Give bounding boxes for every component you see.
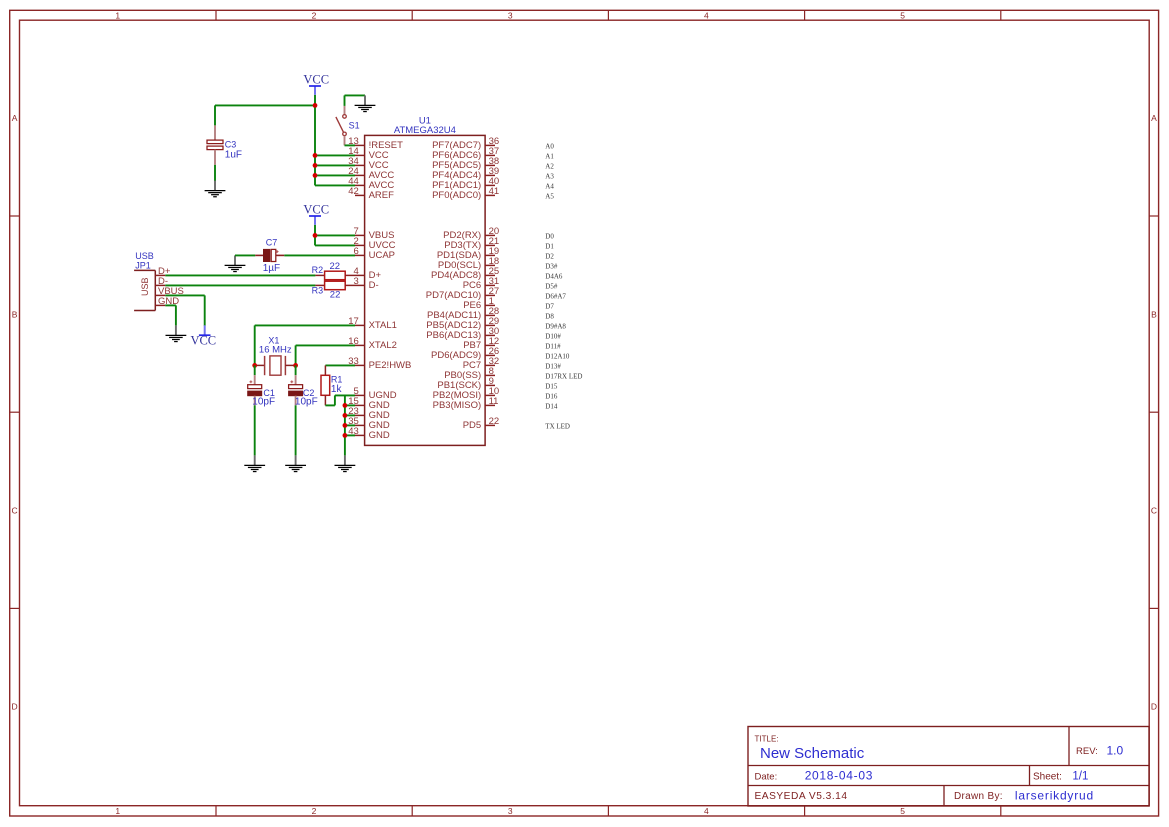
wire VCC to pin 14 bbox=[315, 154, 355, 156]
resistor R3 22 bbox=[315, 281, 355, 290]
svg-text:PF0(ADC0): PF0(ADC0) bbox=[432, 190, 481, 201]
wire VCC to pin 24 bbox=[315, 174, 355, 176]
U1 pin 13 !RESET bbox=[348, 136, 403, 151]
svg-text:10pF: 10pF bbox=[295, 396, 318, 407]
svg-text:D12A10: D12A10 bbox=[545, 353, 570, 361]
capacitor C7 1uF polarized bbox=[255, 249, 284, 261]
U1 pin 31 PC6 bbox=[463, 276, 499, 291]
power flag VCC (top) bbox=[303, 73, 329, 106]
svg-text:3: 3 bbox=[508, 10, 513, 20]
wire D- to R3 bbox=[165, 284, 315, 286]
svg-text:D7: D7 bbox=[545, 303, 554, 311]
svg-text:1k: 1k bbox=[331, 384, 343, 395]
svg-text:B: B bbox=[1151, 309, 1157, 319]
JP1 pin D+ bbox=[155, 266, 171, 277]
svg-text:UCAP: UCAP bbox=[369, 250, 395, 261]
U1 pin 36 PF7(ADC7) bbox=[432, 136, 499, 151]
svg-text:D15: D15 bbox=[545, 383, 558, 391]
U1 pin 23 GND bbox=[348, 406, 390, 421]
junction XTAL2/C2 bbox=[293, 363, 298, 368]
svg-text:Drawn By:: Drawn By: bbox=[954, 791, 1003, 802]
svg-text:A4: A4 bbox=[545, 183, 554, 191]
svg-text:D5#: D5# bbox=[545, 283, 558, 291]
svg-text:A: A bbox=[1151, 113, 1157, 123]
U1 pin 25 PD4(ADC8) bbox=[431, 266, 499, 281]
svg-text:2: 2 bbox=[312, 10, 317, 20]
svg-text:4: 4 bbox=[704, 806, 709, 816]
svg-text:D-: D- bbox=[369, 280, 379, 291]
wire VCC horizontal to C3 bbox=[215, 104, 315, 106]
svg-text:4: 4 bbox=[704, 10, 709, 20]
IC U1 ATMEGA32U4 body bbox=[365, 135, 486, 445]
resistor R1 1k bbox=[321, 365, 330, 405]
U1 pin 37 PF6(ADC6) bbox=[432, 146, 499, 161]
svg-text:5: 5 bbox=[900, 806, 905, 816]
JP1 pin GND bbox=[155, 296, 179, 307]
U1 pin 39 PF4(ADC4) bbox=[432, 166, 499, 181]
svg-text:VCC: VCC bbox=[190, 334, 216, 348]
U1 pin 5 UGND bbox=[354, 386, 397, 401]
U1 pin 12 PB7 bbox=[463, 336, 499, 351]
title block bbox=[748, 727, 1149, 807]
svg-text:larserikdyrud: larserikdyrud bbox=[1015, 788, 1094, 802]
wire VCC to pin 2 UVCC bbox=[315, 235, 355, 245]
U1 pin 32 PC7 bbox=[463, 356, 499, 371]
wire C1 to ground bbox=[254, 405, 256, 455]
connector JP1 USB body bbox=[134, 270, 155, 310]
svg-text:D1: D1 bbox=[545, 243, 554, 251]
svg-text:D10#: D10# bbox=[545, 333, 561, 341]
wire USB GND bbox=[165, 305, 176, 325]
crystal X1 16 MHz bbox=[255, 356, 296, 375]
wire VCC to pin 44 bbox=[315, 184, 355, 186]
resistor R2 22 bbox=[315, 271, 355, 280]
U1 pin 41 PF0(ADC0) bbox=[432, 186, 499, 201]
svg-text:D13#: D13# bbox=[545, 363, 561, 371]
wire C7 left bbox=[235, 254, 255, 256]
wire XTAL2 bbox=[296, 345, 355, 365]
wire to pin 35 GND bbox=[345, 424, 355, 426]
power flag VCC (VBUS) bbox=[303, 203, 329, 236]
wire C2 to ground bbox=[295, 405, 297, 455]
svg-text:R2: R2 bbox=[312, 265, 324, 275]
svg-text:10pF: 10pF bbox=[252, 396, 275, 407]
U1 pin 27 PD7(ADC10) bbox=[426, 286, 499, 301]
svg-text:VCC: VCC bbox=[303, 203, 329, 217]
U1 pin 2 UVCC bbox=[354, 236, 396, 251]
svg-text:R1: R1 bbox=[331, 374, 343, 384]
U1 pin 16 XTAL2 bbox=[348, 336, 397, 351]
svg-text:New Schematic: New Schematic bbox=[760, 745, 865, 762]
wire XTAL1 bbox=[255, 325, 355, 365]
wire VCC to pin 34 bbox=[315, 164, 355, 166]
U1 pin 6 UCAP bbox=[354, 246, 396, 261]
svg-text:41: 41 bbox=[489, 186, 500, 197]
U1 pin 7 VBUS bbox=[354, 226, 395, 241]
junction pin 34 bbox=[313, 163, 318, 168]
wire to pin 23 GND bbox=[345, 414, 355, 416]
U1 pin 20 PD2(RX) bbox=[443, 226, 499, 241]
svg-text:USB: USB bbox=[140, 277, 150, 296]
ground (C1) bbox=[244, 455, 265, 471]
svg-text:B: B bbox=[12, 309, 18, 319]
U1 pin 21 PD3(TX) bbox=[444, 236, 499, 251]
switch S1 bbox=[336, 106, 346, 145]
wire R1 to pin 33 bbox=[325, 364, 355, 366]
wire ground bus vertical bbox=[344, 395, 346, 455]
ground (C7) bbox=[225, 255, 246, 271]
wire to pin 43 GND bbox=[345, 434, 355, 436]
wire R1 to pin 5 UGND bbox=[325, 395, 355, 405]
svg-text:A: A bbox=[12, 113, 18, 123]
svg-text:D3#: D3# bbox=[545, 263, 558, 271]
U1 pin 22 PD5 bbox=[463, 416, 499, 431]
svg-text:D14: D14 bbox=[545, 403, 558, 411]
U1 pin 9 PB1(SCK) bbox=[437, 376, 495, 391]
wire C3 top bbox=[214, 105, 216, 125]
svg-text:D11#: D11# bbox=[545, 343, 561, 351]
svg-text:2: 2 bbox=[312, 806, 317, 816]
svg-text:16 MHz: 16 MHz bbox=[259, 345, 292, 356]
U1 pin 4 D+ bbox=[354, 266, 382, 281]
U1 pin 3 D- bbox=[354, 276, 379, 291]
capacitor C1 10pF polarized bbox=[248, 375, 262, 405]
power flag VCC (USB VBUS) bbox=[190, 325, 216, 347]
U1 pin 38 PF5(ADC5) bbox=[432, 156, 499, 171]
svg-text:PE2!HWB: PE2!HWB bbox=[369, 360, 412, 371]
wire VCC to pin 7 VBUS bbox=[315, 234, 355, 236]
svg-text:C: C bbox=[12, 506, 18, 516]
svg-text:D2: D2 bbox=[545, 253, 554, 261]
junction VBUS bbox=[313, 233, 318, 238]
U1 pin 33 PE2!HWB bbox=[348, 356, 411, 371]
junction pin 24 bbox=[313, 173, 318, 178]
svg-text:3: 3 bbox=[508, 806, 513, 816]
U1 pin 8 PB0(SS) bbox=[444, 366, 495, 381]
junction XTAL1/C1 bbox=[252, 363, 257, 368]
svg-text:D9#A8: D9#A8 bbox=[545, 323, 566, 331]
svg-text:D17RX LED: D17RX LED bbox=[545, 373, 582, 381]
svg-text:EASYEDA V5.3.14: EASYEDA V5.3.14 bbox=[755, 791, 848, 802]
U1 pin 35 GND bbox=[348, 416, 390, 431]
wire VCC vertical bbox=[314, 105, 316, 185]
svg-text:A1: A1 bbox=[545, 153, 554, 161]
svg-text:A5: A5 bbox=[545, 193, 554, 201]
junction pin 14 bbox=[313, 153, 318, 158]
svg-text:JP1: JP1 bbox=[135, 260, 151, 270]
svg-text:R3: R3 bbox=[312, 285, 324, 295]
U1 pin 18 PD0(SCL) bbox=[438, 256, 499, 271]
svg-text:D0: D0 bbox=[545, 233, 554, 241]
ground (S1) bbox=[355, 95, 376, 111]
svg-text:1.0: 1.0 bbox=[1107, 744, 1124, 758]
svg-text:C: C bbox=[1151, 506, 1157, 516]
svg-text:PB3(MISO): PB3(MISO) bbox=[433, 400, 482, 411]
svg-text:S1: S1 bbox=[349, 120, 360, 130]
svg-text:TX LED: TX LED bbox=[545, 423, 570, 431]
junction GND 43 bbox=[343, 433, 348, 438]
svg-text:11: 11 bbox=[489, 396, 499, 407]
JP1 pin D- bbox=[155, 276, 168, 287]
U1 pin 44 AVCC bbox=[348, 176, 394, 191]
svg-text:PD5: PD5 bbox=[463, 420, 481, 431]
U1 pin 17 XTAL1 bbox=[348, 316, 397, 331]
wire X1 to C2 bbox=[295, 365, 297, 375]
capacitor C2 10pF polarized bbox=[289, 375, 303, 405]
junction GND 15 bbox=[343, 403, 348, 408]
wire C3 to ground bbox=[214, 165, 216, 181]
svg-text:XTAL1: XTAL1 bbox=[369, 320, 397, 331]
U1 pin 43 GND bbox=[348, 426, 390, 441]
svg-text:22: 22 bbox=[330, 261, 341, 272]
wire S1 to pin 13 bbox=[345, 144, 356, 146]
svg-text:TITLE:: TITLE: bbox=[755, 735, 779, 744]
U1 pin 40 PF1(ADC1) bbox=[432, 176, 499, 191]
svg-text:ATMEGA32U4: ATMEGA32U4 bbox=[394, 125, 456, 136]
wire to pin 15 GND bbox=[345, 404, 355, 406]
U1 pin 10 PB2(MOSI) bbox=[433, 386, 500, 401]
wire X1 to C1 bbox=[254, 365, 256, 375]
svg-text:42: 42 bbox=[348, 186, 359, 197]
svg-text:1µF: 1µF bbox=[263, 263, 280, 274]
svg-text:1/1: 1/1 bbox=[1072, 771, 1088, 783]
JP1 pin VBUS bbox=[155, 286, 184, 297]
svg-text:1uF: 1uF bbox=[225, 149, 242, 160]
U1 pin 15 GND bbox=[348, 396, 390, 411]
U1 pin 30 PB6(ADC13) bbox=[426, 326, 499, 341]
ground (C3) bbox=[205, 181, 226, 197]
svg-text:Date:: Date: bbox=[755, 771, 778, 782]
ground (C2) bbox=[285, 455, 306, 471]
svg-text:A3: A3 bbox=[545, 173, 554, 181]
svg-text:1: 1 bbox=[115, 806, 120, 816]
U1 pin 19 PD1(SDA) bbox=[437, 246, 499, 261]
wire D+ to R2 bbox=[165, 274, 315, 276]
svg-text:A2: A2 bbox=[545, 163, 554, 171]
junction GND 35 bbox=[343, 423, 348, 428]
wire S1 to ground bbox=[345, 95, 366, 106]
svg-text:C7: C7 bbox=[266, 238, 278, 248]
svg-text:A0: A0 bbox=[545, 143, 554, 151]
svg-text:GND: GND bbox=[369, 430, 390, 441]
U1 pin 34 VCC bbox=[348, 156, 389, 171]
U1 pin 42 AREF bbox=[348, 186, 394, 201]
ground (USB) bbox=[166, 325, 187, 341]
svg-text:D8: D8 bbox=[545, 313, 554, 321]
junction GND 23 bbox=[343, 413, 348, 418]
svg-text:D6#A7: D6#A7 bbox=[545, 293, 566, 301]
U1 pin 1 PE6 bbox=[463, 296, 495, 311]
svg-text:AREF: AREF bbox=[369, 190, 395, 201]
svg-text:1: 1 bbox=[115, 10, 120, 20]
U1 pin 26 PD6(ADC9) bbox=[431, 346, 499, 361]
svg-text:2018-04-03: 2018-04-03 bbox=[805, 768, 873, 782]
svg-text:D: D bbox=[1151, 702, 1157, 712]
ground (GND bus) bbox=[335, 455, 356, 471]
wire C7 to pin 6 UCAP bbox=[284, 254, 355, 256]
wire VBUS to VCC bbox=[165, 295, 204, 325]
U1 pin 28 PB4(ADC11) bbox=[427, 306, 499, 321]
svg-text:XTAL2: XTAL2 bbox=[369, 340, 397, 351]
svg-text:D16: D16 bbox=[545, 393, 558, 401]
svg-text:Sheet:: Sheet: bbox=[1033, 771, 1062, 782]
junction VCC top bbox=[313, 103, 318, 108]
U1 pin 11 PB3(MISO) bbox=[433, 396, 499, 411]
svg-text:D: D bbox=[12, 702, 18, 712]
svg-text:REV:: REV: bbox=[1076, 746, 1098, 757]
U1 pin 24 AVCC bbox=[348, 166, 394, 181]
capacitor C3 1uF bbox=[207, 125, 223, 164]
svg-text:22: 22 bbox=[489, 416, 500, 427]
svg-text:VCC: VCC bbox=[303, 73, 329, 87]
svg-text:C3: C3 bbox=[225, 139, 237, 149]
svg-text:D4A6: D4A6 bbox=[545, 273, 563, 281]
U1 pin 14 VCC bbox=[348, 146, 389, 161]
svg-text:22: 22 bbox=[330, 290, 341, 301]
svg-text:5: 5 bbox=[900, 10, 905, 20]
U1 pin 29 PB5(ADC12) bbox=[426, 316, 499, 331]
